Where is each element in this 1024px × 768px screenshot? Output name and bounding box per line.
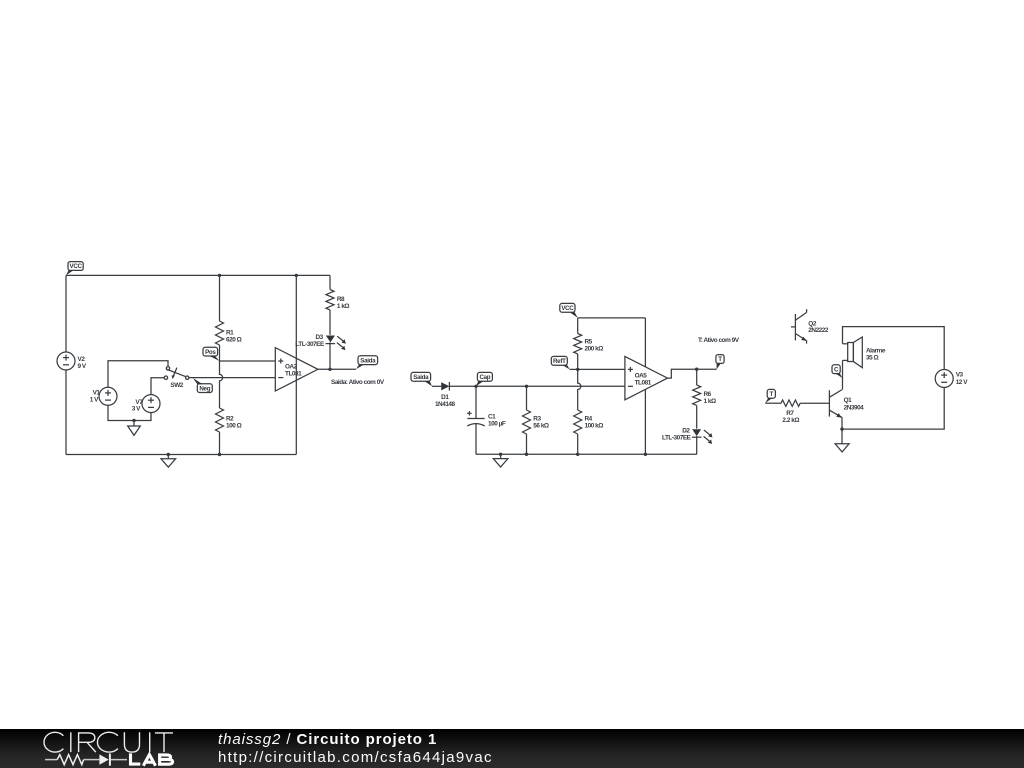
svg-text:D3: D3 [316, 334, 324, 341]
ground symbol middle circuit [493, 454, 508, 467]
label V7 3 V [132, 399, 143, 412]
label Alarme 35 ohm [866, 347, 886, 361]
wire op-amp plus input [220, 360, 276, 362]
wire left rail [65, 275, 67, 454]
svg-text:9 V: 9 V [78, 363, 87, 370]
wire bottom rail left circuit [66, 454, 296, 456]
node junction R6 top [695, 368, 698, 371]
svg-text:2N2222: 2N2222 [808, 327, 829, 334]
label R6 1 kohm [704, 391, 717, 405]
label V1 1 V [90, 390, 101, 404]
svg-text:TL081: TL081 [285, 371, 302, 378]
node junction op-amp supply bottom middle [644, 453, 647, 456]
flag C collector [832, 365, 842, 378]
svg-text:56 kΩ: 56 kΩ [533, 422, 549, 429]
op-amp OA5 TL081 [625, 356, 668, 399]
wire emitter rail to V3 bottom [842, 387, 944, 429]
logo letter R [79, 732, 96, 752]
svg-text:Cap: Cap [480, 374, 491, 381]
svg-text:12 V: 12 V [956, 379, 969, 386]
svg-text:LTL-307EE: LTL-307EE [662, 435, 692, 442]
logo letter C [44, 732, 63, 752]
svg-text:Neg: Neg [199, 385, 210, 392]
svg-text:C1: C1 [488, 413, 496, 420]
flag T output [716, 355, 724, 370]
svg-text:100 Ω: 100 Ω [226, 423, 242, 430]
svg-text:620 Ω: 620 Ω [226, 336, 242, 343]
svg-text:100 µF: 100 µF [488, 420, 506, 427]
label R3 56 kohm [533, 415, 549, 429]
svg-text:R1: R1 [226, 329, 234, 336]
node junction R2 bottom [218, 453, 221, 456]
svg-text:3 V: 3 V [132, 405, 141, 412]
wire op-amp minus input from switch pole [187, 377, 275, 379]
flag VCC left [66, 262, 83, 276]
transistor Q2 unconnected [791, 309, 807, 343]
LED D3 [326, 336, 346, 370]
voltage source V2 [57, 352, 75, 370]
label D2 LTL-307EE [662, 428, 692, 442]
svg-text:R8: R8 [337, 296, 345, 303]
svg-text:R6: R6 [704, 391, 712, 398]
svg-text:TL081: TL081 [635, 379, 652, 386]
wire D1 cathode to op-amp minus input [449, 385, 625, 387]
node junction ground left [167, 453, 170, 456]
svg-text:2.2 kΩ: 2.2 kΩ [782, 417, 799, 424]
wire op-amp supply vertical middle [644, 318, 646, 454]
node junction R4 bottom [576, 453, 579, 456]
label V2 9 V [78, 356, 87, 370]
svg-text:R2: R2 [226, 416, 234, 423]
flag Saida output left [356, 356, 378, 370]
node junction R1 top [218, 274, 221, 277]
flag Pos [203, 347, 220, 361]
resistor R4 [574, 410, 582, 454]
svg-text:1 kΩ: 1 kΩ [704, 398, 717, 405]
svg-text:200 kΩ: 200 kΩ [585, 346, 604, 353]
svg-text:T: Ativo com 9V: T: Ativo com 9V [698, 337, 740, 344]
resistor R5 [574, 318, 582, 370]
node junction R3 top [525, 385, 528, 388]
svg-text:R5: R5 [585, 339, 593, 346]
resistor R1 [216, 275, 224, 361]
svg-text:V3: V3 [956, 372, 964, 379]
svg-text:T: T [770, 391, 774, 398]
flag Cap [476, 372, 492, 386]
svg-text:VCC: VCC [561, 305, 574, 312]
capacitor C1 polarized [467, 386, 485, 454]
switch SW2 [164, 367, 189, 380]
logo letter C [97, 732, 117, 752]
ground symbol right circuit [835, 429, 849, 452]
svg-text:100 kΩ: 100 kΩ [585, 422, 604, 429]
flag VCC middle [560, 303, 578, 318]
svg-text:1 kΩ: 1 kΩ [337, 303, 350, 310]
label Q1 2N3904 [844, 397, 865, 412]
svg-text:R4: R4 [585, 415, 593, 422]
wire R7 to Q1 base [800, 402, 829, 404]
svg-text:OA5: OA5 [635, 372, 648, 379]
svg-text:T: T [718, 356, 722, 363]
speaker Alarme [843, 337, 863, 368]
wire op-amp supply vertical [295, 275, 297, 454]
flag Saida input middle [411, 372, 432, 386]
logo letter I [149, 732, 151, 752]
svg-text:VCC: VCC [70, 263, 83, 270]
resistor R8 [326, 275, 334, 335]
voltage source V1 [99, 387, 117, 405]
wire V7 top to switch throw 2 [151, 378, 164, 395]
wire speaker bottom to Q1 collector [842, 360, 844, 389]
logo letter T [155, 733, 173, 752]
logo letter I [70, 732, 72, 752]
node junction ground middle [499, 453, 502, 456]
LED D2 [692, 429, 713, 454]
svg-text:RefT: RefT [553, 358, 566, 365]
ground symbol left circuit [161, 455, 176, 468]
node junction emitter ground [840, 427, 843, 430]
logo LAB text [131, 753, 173, 765]
wire T to R7 [765, 402, 781, 404]
svg-text:2N3904: 2N3904 [844, 405, 865, 412]
wire V1 top to switch throw 1 [108, 361, 168, 388]
logo resistor-diode symbol [45, 754, 127, 766]
voltage source V7 [142, 395, 160, 413]
op-amp OA2 TL081 [275, 348, 318, 391]
node junction ground V1 V7 [132, 419, 135, 422]
label R5 200 kohm [585, 339, 604, 353]
voltage source V3 [935, 370, 953, 388]
resistor R6 [693, 369, 701, 428]
logo letter U [124, 732, 139, 752]
svg-text:Pos: Pos [205, 349, 216, 356]
node junction op-amp supply top [295, 274, 298, 277]
label R7 2.2 kohm [782, 410, 799, 424]
wire R1-R2 vertical with hop over minus wire [220, 361, 223, 408]
flag T input right [765, 389, 775, 403]
svg-text:Alarme: Alarme [866, 347, 886, 354]
wire top rail left circuit [66, 274, 330, 276]
label D3 LTL-307EE [295, 334, 325, 348]
resistor R7 horizontal [781, 400, 800, 406]
svg-text:35 Ω: 35 Ω [866, 354, 879, 361]
node junction output D3 [328, 368, 331, 371]
resistor R3 [523, 386, 531, 454]
resistor R2 [216, 408, 224, 455]
label R4 100 kohm [585, 415, 604, 429]
label D1 1N4148 [435, 394, 456, 408]
node junction R3 bottom [525, 453, 528, 456]
svg-text:R3: R3 [533, 415, 541, 422]
wire op-amp output [318, 368, 356, 370]
label R2 100 ohm [226, 416, 242, 430]
svg-text:SW2: SW2 [170, 382, 183, 389]
svg-text:V2: V2 [78, 356, 86, 363]
svg-text:D2: D2 [682, 428, 690, 435]
node junction Cap [474, 385, 477, 388]
diode D1 1N4148 [441, 382, 449, 391]
svg-text:1N4148: 1N4148 [435, 401, 456, 408]
svg-text:1 V: 1 V [90, 397, 99, 404]
svg-text:Saida: Ativo com 0V: Saida: Ativo com 0V [331, 379, 385, 386]
svg-text:V1: V1 [93, 390, 101, 397]
svg-text:LTL-307EE: LTL-307EE [295, 341, 325, 348]
node junction R5 R4 plus input [576, 368, 579, 371]
wire VCC top rail middle [578, 317, 646, 319]
flag RefT [551, 356, 569, 369]
wire bottom rail middle circuit [476, 453, 697, 455]
wire speaker top to V3 top [843, 327, 945, 370]
wire op-amp output to T [668, 369, 717, 378]
label OA5 TL081 [635, 372, 652, 386]
label V3 12 V [956, 372, 969, 386]
wire R5 to R4 vertical with hop over minus wire [578, 369, 581, 410]
wire Saida to D1 anode [432, 385, 441, 387]
label R8 1 kohm [337, 296, 350, 310]
label R1 620 ohm [226, 329, 242, 343]
transistor Q1 2N3904 [829, 390, 842, 430]
label OA2 TL081 [285, 364, 302, 378]
wire op-amp plus input middle [570, 368, 625, 370]
ground symbol under V1 V7 [128, 421, 141, 436]
svg-text:Q1: Q1 [844, 397, 853, 404]
flag Neg [193, 378, 213, 393]
svg-text:Saida: Saida [413, 374, 429, 381]
label Q2 2N2222 [808, 320, 829, 334]
svg-text:Saida: Saida [360, 357, 376, 364]
wire V1 bottom loop [108, 405, 151, 420]
label C1 100 uF [488, 413, 506, 427]
